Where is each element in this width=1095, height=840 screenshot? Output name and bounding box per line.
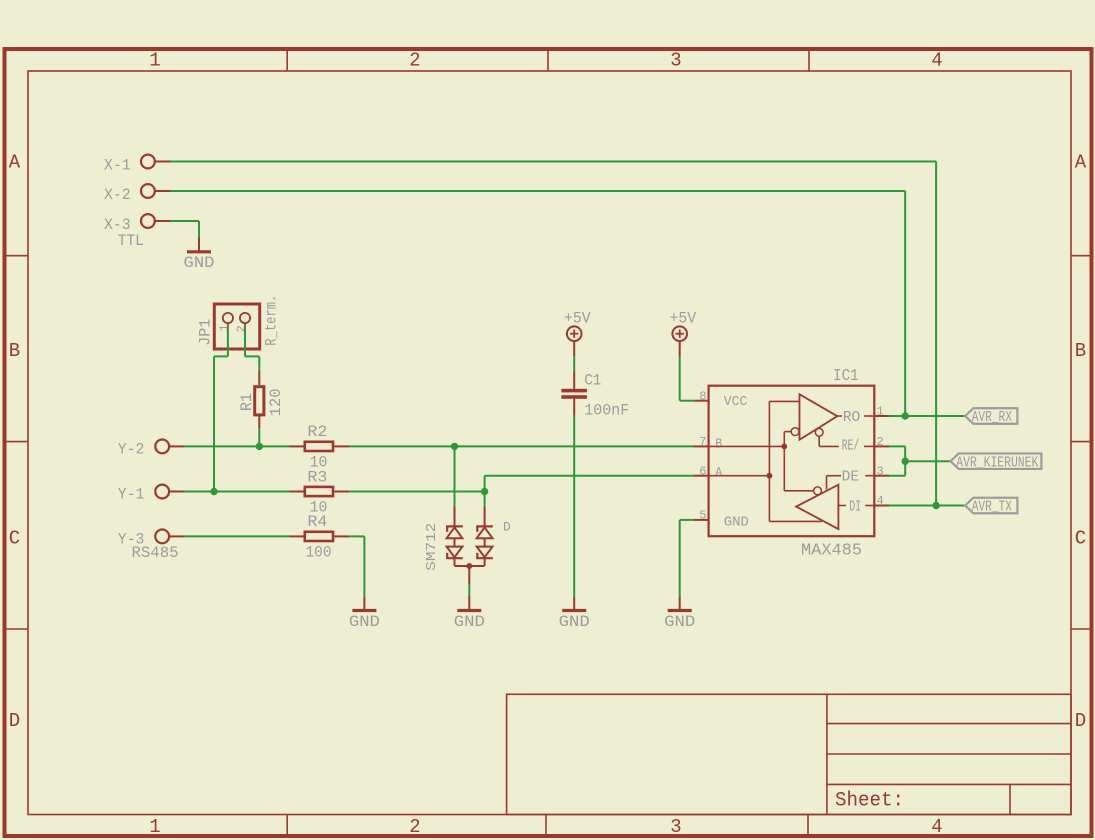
resistor R3	[290, 491, 304, 493]
connector pin Y-2	[155, 440, 169, 454]
wire JP1 pin1 to Y-1 net	[227, 327, 229, 357]
svg-text:8: 8	[699, 390, 706, 404]
op-amp IC1 MAX485 body	[709, 386, 875, 537]
wire Y-1 to R3	[185, 491, 290, 493]
svg-text:GND: GND	[349, 613, 380, 631]
connector pin Y-1	[155, 485, 169, 499]
wire R2 to IC1 pin B	[349, 445, 694, 447]
IC1 DI pin line	[838, 505, 846, 507]
connector pin Y-3	[155, 530, 169, 544]
svg-text:SM712: SM712	[424, 523, 440, 571]
wire X-2 to RO column	[170, 190, 905, 192]
svg-text:MAX485: MAX485	[801, 542, 862, 561]
svg-text:B: B	[1075, 340, 1086, 362]
svg-text:AVR_TX: AVR_TX	[972, 500, 1013, 516]
svg-text:1: 1	[218, 324, 232, 331]
connector pin X-3	[141, 214, 155, 228]
svg-text:AVR_RX: AVR_RX	[972, 410, 1013, 426]
capacitor C1	[561, 389, 587, 393]
diode array D SM712 left pair	[446, 525, 463, 527]
svg-text:1: 1	[149, 50, 160, 72]
svg-text:D: D	[1075, 710, 1086, 732]
svg-text:2: 2	[409, 816, 420, 838]
IC1 driver B output bubble	[783, 446, 785, 490]
svg-text:X-1: X-1	[104, 157, 131, 175]
IC1 pin 7 B wire stub	[694, 445, 709, 447]
svg-text:RE/: RE/	[842, 438, 860, 455]
wire R3 to IC1 pin A	[349, 491, 484, 493]
svg-text:RS485: RS485	[132, 544, 179, 562]
IC1 pin 3 DE stub	[874, 475, 889, 477]
wire +5V to IC1 VCC pin 8	[679, 341, 681, 356]
svg-text:D: D	[503, 520, 511, 535]
wire DE to KIERUNEK node	[889, 475, 905, 477]
wire JP1 pin2 to R1	[244, 327, 246, 357]
svg-text:Sheet:: Sheet:	[835, 790, 904, 813]
jumper JP1 pin 1 pad	[223, 313, 233, 323]
svg-text:C: C	[1075, 527, 1086, 549]
jumper JP1 body	[214, 304, 259, 349]
wire +5V to C1	[573, 341, 575, 356]
wire Y-3 to R4	[185, 535, 290, 537]
svg-text:TTL: TTL	[118, 232, 144, 250]
IC1 internal junction A	[767, 473, 773, 479]
IC1 pin 2 RE stub	[874, 445, 889, 447]
svg-text:Y-2: Y-2	[118, 440, 145, 458]
svg-text:DE: DE	[842, 469, 860, 486]
svg-text:D: D	[9, 710, 20, 732]
svg-text:2: 2	[409, 50, 420, 72]
wire A net to SM712 right column	[484, 492, 486, 508]
ground symbol GND (C1)	[573, 598, 575, 611]
svg-text:R3: R3	[307, 468, 327, 486]
junction B net / SM712	[451, 443, 458, 450]
svg-text:RO: RO	[843, 409, 861, 426]
junction DI / X-1 column	[932, 502, 939, 509]
junction RO / X-2 column	[902, 412, 909, 419]
svg-text:X-2: X-2	[104, 186, 131, 204]
svg-text:100: 100	[306, 543, 332, 561]
svg-text:R2: R2	[307, 423, 327, 441]
IC1 pin 4 DI stub	[874, 505, 889, 507]
wire X-3 to ground	[170, 220, 199, 222]
svg-text:A: A	[715, 465, 722, 481]
connector pin X-1	[141, 155, 155, 169]
wire KIERUNEK node to label	[905, 460, 950, 462]
wire B net to SM712 left column	[454, 446, 456, 507]
IC1 receiver A input path	[769, 400, 799, 402]
IC1 pin 1 RO stub	[874, 415, 889, 417]
resistor R4	[290, 535, 304, 537]
junction RE/DE tie	[902, 458, 909, 465]
ground symbol GND (IC1)	[679, 598, 681, 611]
svg-text:2: 2	[235, 325, 249, 332]
svg-text:1: 1	[149, 816, 160, 838]
svg-text:B: B	[715, 437, 722, 453]
jumper JP1 pin 2 pad	[240, 313, 250, 323]
wire C1 to ground	[573, 399, 575, 416]
SM712 bottom rail	[455, 565, 485, 567]
junction JP1-pin1 / Y-1	[210, 488, 217, 495]
IC1 driver A output path	[769, 520, 822, 522]
svg-text:A: A	[1075, 151, 1087, 173]
resistor R1 body	[255, 387, 264, 415]
IC1 internal junction B	[781, 444, 787, 450]
svg-text:GND: GND	[184, 254, 215, 272]
wire Y-2 to R2	[185, 445, 290, 447]
svg-text:DI: DI	[849, 499, 861, 516]
svg-text:VCC: VCC	[724, 394, 748, 410]
svg-text:GND: GND	[454, 613, 485, 631]
resistor R2	[290, 445, 304, 447]
wire IC1 GND pin 5 to ground	[694, 519, 709, 521]
net label AVR_KIERUNEK	[951, 453, 1042, 469]
junction SM712 common	[466, 563, 472, 569]
ground symbol GND (X-3)	[198, 238, 200, 252]
svg-text:+5V: +5V	[564, 310, 591, 328]
svg-text:C: C	[9, 527, 20, 549]
IC1 receiver buffer triangle	[800, 394, 838, 440]
svg-text:IC1: IC1	[833, 367, 859, 386]
wire X-1 to DI column	[170, 161, 936, 163]
supply +5V symbol (C1)	[567, 326, 582, 341]
IC1 RE enable bubble	[815, 428, 823, 436]
wire R4 to ground	[349, 535, 364, 537]
IC1 receiver B input bubble	[783, 432, 785, 447]
svg-text:AVR_KIERUNEK: AVR_KIERUNEK	[956, 455, 1038, 471]
svg-text:3: 3	[670, 816, 681, 838]
junction R1 / Y-2	[256, 443, 263, 450]
svg-text:GND: GND	[664, 613, 695, 631]
svg-text:4: 4	[931, 50, 942, 72]
svg-text:5: 5	[699, 509, 706, 523]
svg-text:GND: GND	[724, 515, 749, 531]
wire RE to KIERUNEK node	[889, 445, 905, 447]
supply +5V symbol (IC1)	[672, 326, 687, 341]
IC1 driver buffer triangle	[796, 485, 838, 529]
svg-text:GND: GND	[559, 613, 590, 631]
svg-text:B: B	[9, 340, 20, 362]
svg-text:R4: R4	[307, 513, 327, 531]
diode array D SM712 right pair	[476, 525, 493, 527]
svg-text:4: 4	[931, 816, 942, 838]
svg-text:A: A	[9, 151, 21, 173]
svg-text:JP1: JP1	[197, 319, 215, 346]
net label AVR_RX	[965, 408, 1017, 424]
net label AVR_TX	[965, 498, 1017, 514]
IC1 pin 6 A wire stub	[694, 475, 709, 477]
svg-text:R1: R1	[238, 393, 256, 411]
wire R1 to Y-2 net	[258, 415, 260, 428]
connector pin X-2	[141, 184, 155, 198]
svg-text:C1: C1	[584, 372, 601, 390]
IC1 RO pin line	[837, 415, 842, 417]
wire RO to AVR_RX	[889, 415, 965, 417]
svg-text:Y-1: Y-1	[118, 486, 145, 504]
ground symbol GND (SM712)	[468, 597, 470, 611]
svg-text:R_term.: R_term.	[263, 295, 281, 346]
title block	[507, 694, 1071, 814]
wire SM712 to ground	[468, 566, 470, 585]
svg-text:+5V: +5V	[670, 310, 697, 328]
svg-text:3: 3	[670, 50, 681, 72]
wire DI to AVR_TX	[889, 505, 965, 507]
junction A net / SM712	[481, 488, 488, 495]
svg-text:100nF: 100nF	[584, 402, 629, 420]
svg-text:120: 120	[267, 388, 285, 416]
ground symbol GND (R4)	[363, 598, 365, 611]
